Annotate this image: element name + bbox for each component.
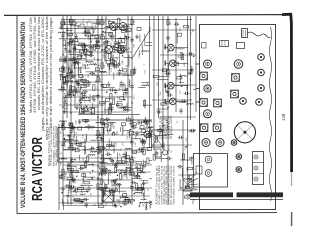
capacitor C196: [122, 202, 128, 205]
IF can Z5: [231, 90, 239, 98]
capacitor C48: [68, 70, 74, 73]
capacitor C42: [89, 72, 95, 75]
resistor R192: [124, 199, 130, 201]
capacitor C181: [128, 170, 131, 176]
coil L228: [108, 122, 115, 123]
capacitor C381: [69, 185, 72, 191]
wire: [104, 183, 108, 185]
capacitor C88: [156, 110, 162, 113]
junction: [133, 200, 135, 202]
wire: [144, 34, 146, 44]
resistor R134: [76, 143, 82, 145]
resistor R371: [70, 19, 72, 25]
capacitor C100: [188, 52, 194, 55]
capacitor C122: [70, 169, 73, 175]
ground: [66, 193, 70, 198]
wire: [115, 179, 117, 191]
svg-text:2.2M: 2.2M: [135, 135, 137, 140]
wire: [176, 47, 188, 49]
tube V6: [166, 59, 179, 66]
capacitor C131: [83, 160, 89, 163]
wire: [131, 151, 143, 153]
svg-text:10K: 10K: [70, 107, 72, 111]
wire: [106, 120, 108, 129]
wire: [66, 16, 68, 118]
resistor R247: [109, 103, 111, 109]
junction: [114, 63, 116, 65]
resistor R438: [131, 121, 133, 127]
ground: [109, 102, 113, 107]
part: [68, 69, 72, 72]
coil L157: [146, 127, 153, 128]
resistor R226: [144, 161, 146, 167]
svg-text:6.8K: 6.8K: [118, 199, 120, 204]
wire: [109, 63, 111, 70]
resistor R22: [81, 85, 87, 87]
wire: [138, 86, 146, 88]
svg-text:1M: 1M: [191, 31, 193, 34]
wire: [95, 38, 97, 43]
resistor R398: [97, 19, 99, 25]
ground: [63, 109, 67, 114]
resistor R91: [161, 103, 167, 105]
wire: [69, 143, 71, 150]
resistor R212: [107, 144, 113, 146]
part: [69, 19, 73, 22]
part: [122, 123, 126, 126]
ground: [64, 46, 68, 51]
wire: [93, 95, 100, 97]
resistor R405: [101, 63, 103, 69]
part: [104, 124, 108, 127]
wire: [114, 25, 116, 36]
capacitor C145: [78, 167, 84, 170]
wire: [60, 85, 62, 89]
junction: [80, 71, 82, 73]
resistor R9: [60, 74, 62, 80]
wire: [160, 116, 196, 118]
resistor R234: [157, 129, 163, 131]
coil L260: [129, 80, 130, 87]
resistor R435: [131, 70, 133, 76]
svg-text:.05: .05: [79, 159, 81, 163]
resistor R262: [110, 93, 112, 99]
capacitor C125: [87, 124, 90, 130]
wire: [59, 28, 105, 30]
capacitor C436: [130, 84, 133, 90]
wire: [103, 31, 113, 33]
junction: [81, 102, 83, 104]
wire: [113, 142, 115, 153]
wire: [85, 57, 87, 62]
control shaft: [189, 157, 194, 159]
wire: [103, 158, 105, 169]
ground: [101, 198, 105, 203]
wire: [68, 57, 70, 71]
coil L222: [149, 128, 150, 135]
tuner box: [58, 128, 104, 163]
wire: [195, 16, 197, 112]
capacitor C439: [130, 139, 133, 145]
wire: [71, 199, 82, 201]
capacitor C92: [174, 22, 180, 25]
capacitor C403: [100, 32, 103, 38]
capacitor C43: [88, 54, 94, 57]
coil L180: [103, 190, 104, 197]
wire: [93, 204, 96, 206]
wire: [62, 201, 64, 210]
capacitor C160: [140, 139, 146, 142]
ground: [74, 34, 78, 39]
resistor R8: [63, 78, 65, 84]
svg-text:6.8K: 6.8K: [123, 174, 125, 179]
power cord: [248, 32, 271, 38]
wire: [150, 204, 152, 206]
wire: [78, 99, 91, 101]
svg-text:3.3K: 3.3K: [104, 54, 106, 59]
wire: [125, 199, 135, 201]
wire: [88, 163, 94, 165]
svg-text:1M: 1M: [73, 174, 75, 177]
junction: [70, 159, 72, 161]
IF can Z7: [213, 124, 221, 132]
svg-text:3.3K: 3.3K: [83, 133, 85, 138]
wire: [118, 40, 120, 44]
wire: [148, 127, 152, 129]
ground: [147, 131, 151, 136]
wire: [105, 16, 107, 62]
chassis tube V20: [204, 60, 212, 68]
junction: [163, 125, 165, 127]
part: [79, 74, 83, 77]
wire: [142, 182, 148, 184]
coil L24: [64, 56, 65, 63]
wire: [104, 49, 106, 61]
svg-text:12K: 12K: [109, 192, 111, 196]
wire: [90, 109, 92, 115]
capacitor C129: [73, 188, 79, 191]
capacitor C229: [141, 148, 144, 154]
wire: [80, 142, 86, 144]
svg-text:6.8K: 6.8K: [184, 62, 186, 67]
part: [105, 188, 109, 191]
ground: [92, 97, 96, 102]
resistor R149: [84, 162, 86, 168]
junction: [113, 51, 115, 53]
coil L121: [74, 143, 81, 144]
wire: [175, 18, 177, 112]
wire: [123, 130, 129, 132]
svg-text:270K: 270K: [104, 170, 106, 176]
resistor R96: [181, 54, 183, 60]
wire: [153, 16, 155, 150]
resistor R380: [70, 172, 72, 178]
junction: [120, 172, 122, 174]
capacitor C70: [117, 62, 120, 68]
junction: [101, 104, 103, 106]
wire: [189, 131, 195, 133]
ground: [102, 191, 106, 196]
resistor R58: [114, 62, 116, 68]
power plug: [242, 29, 248, 38]
wire: [130, 161, 132, 171]
wire: [182, 120, 184, 205]
wire: [63, 111, 128, 113]
capacitor C184: [143, 120, 149, 123]
wire: [80, 194, 84, 196]
capacitor C46: [72, 47, 78, 50]
wire: [62, 199, 64, 204]
resistor R377: [70, 123, 72, 129]
capacitor C101: [184, 92, 190, 95]
wire: [84, 147, 86, 154]
capacitor C21: [67, 91, 70, 97]
capacitor C59: [114, 40, 117, 46]
capacitor C242: [177, 165, 183, 168]
resistor R237: [155, 137, 157, 143]
capacitor C139: [83, 120, 89, 123]
wire: [59, 89, 128, 91]
coil L114: [59, 158, 66, 159]
resistor R227: [136, 162, 142, 164]
resistor R106: [68, 168, 74, 170]
wire: [108, 138, 110, 149]
coil L202: [145, 117, 146, 124]
capacitor C409: [100, 136, 103, 142]
svg-text:270K: 270K: [139, 53, 141, 59]
resistor R257: [117, 104, 123, 106]
part: [120, 97, 124, 100]
coil L104: [186, 103, 193, 104]
svg-text:150: 150: [94, 56, 96, 60]
resistor R39: [88, 33, 90, 39]
svg-text:3.3K: 3.3K: [106, 147, 108, 152]
capacitor C76: [124, 29, 130, 32]
svg-text:.02: .02: [64, 142, 66, 146]
wire: [74, 19, 76, 108]
svg-text:33K: 33K: [117, 130, 119, 134]
wire: [76, 88, 78, 93]
capacitor C412: [100, 187, 103, 193]
ground: [114, 203, 118, 208]
capacitor C236: [161, 143, 164, 149]
junction: [117, 175, 119, 177]
wire: [187, 16, 189, 182]
wire: [63, 19, 192, 21]
wire: [119, 127, 121, 132]
wire: [119, 69, 123, 71]
ground: [60, 24, 64, 29]
part: [78, 127, 82, 130]
wire: [157, 78, 169, 80]
junction: [97, 166, 99, 168]
junction: [102, 31, 104, 32]
wire: [62, 16, 64, 205]
wire: [90, 35, 100, 37]
svg-text:2.2M: 2.2M: [91, 22, 93, 27]
part: [126, 167, 130, 170]
resistor R245: [182, 154, 184, 160]
part: [121, 29, 125, 32]
wire: [71, 191, 81, 193]
wire: [73, 47, 75, 58]
svg-text:3.3K: 3.3K: [185, 146, 187, 151]
wire: [114, 29, 116, 42]
tube V3: [101, 45, 116, 54]
capacitor C232: [114, 162, 117, 168]
capacitor C146: [71, 125, 74, 131]
junction: [73, 149, 75, 151]
trimmer stub: [196, 88, 200, 90]
wire: [118, 54, 120, 65]
resistor R158: [137, 168, 143, 170]
wire: [131, 16, 133, 205]
transformer T4: [80, 108, 95, 114]
capacitor C68: [113, 63, 116, 69]
resistor R54: [62, 82, 68, 84]
resistor R34: [94, 45, 96, 51]
junction: [70, 112, 72, 114]
resistor R163: [114, 167, 116, 173]
wire: [117, 100, 123, 102]
resistor R33: [63, 40, 65, 46]
wire: [125, 65, 129, 67]
junction: [73, 95, 75, 97]
wire: [141, 179, 148, 181]
wire: [84, 65, 86, 70]
chassis torn edge: [270, 27, 272, 201]
coil L45: [81, 97, 88, 98]
wire: [104, 172, 115, 174]
wire: [97, 16, 99, 205]
coil L148: [69, 127, 76, 128]
junction: [106, 168, 108, 170]
svg-text:3.3K: 3.3K: [134, 20, 136, 25]
resistor R73: [107, 64, 113, 66]
junction: [124, 99, 126, 101]
wire: [92, 103, 94, 108]
junction: [87, 109, 89, 111]
chassis tube V25: [216, 139, 224, 147]
resistor R162: [119, 161, 125, 163]
wire: [104, 187, 106, 195]
junction: [167, 51, 169, 53]
resistor R468: [167, 19, 169, 25]
capacitor C35: [69, 40, 75, 43]
svg-text:.1: .1: [110, 153, 112, 156]
svg-text:2.2M: 2.2M: [92, 126, 94, 131]
wire: [108, 63, 110, 75]
wire: [179, 82, 184, 84]
wire: [70, 90, 81, 92]
wire: [139, 34, 141, 42]
wire: [152, 29, 196, 31]
wire: [70, 25, 80, 27]
wire: [126, 167, 128, 179]
coil L174: [144, 121, 151, 122]
junction: [113, 160, 115, 162]
ground: [133, 173, 137, 178]
wire: [80, 97, 85, 99]
coil L263: [119, 108, 126, 109]
wire: [63, 32, 90, 34]
capacitor C105: [70, 185, 76, 188]
part: [95, 68, 99, 71]
wire: [143, 104, 152, 106]
wire: [66, 55, 68, 63]
resistor R94: [180, 53, 182, 59]
wire: [114, 190, 127, 192]
part: [185, 186, 189, 189]
wire: [73, 57, 75, 69]
junction: [186, 146, 188, 148]
junction: [139, 175, 141, 177]
part: [125, 198, 129, 201]
svg-text:33K: 33K: [61, 161, 63, 165]
wire: [168, 64, 170, 70]
wire: [73, 57, 86, 59]
capacitor C86: [167, 93, 173, 96]
wire: [112, 29, 117, 31]
junction: [135, 166, 137, 168]
wire: [58, 124, 60, 210]
ground: [78, 119, 82, 124]
svg-text:470: 470: [123, 142, 125, 146]
capacitor C251: [116, 102, 119, 108]
ground: [99, 149, 103, 154]
wire: [64, 23, 76, 25]
part: [130, 131, 134, 134]
resistor R51: [83, 81, 89, 83]
part: [177, 33, 181, 36]
resistor R28: [75, 88, 81, 90]
part: [137, 27, 141, 30]
capacitor C193: [143, 139, 146, 145]
svg-text:10K: 10K: [102, 95, 104, 99]
junction: [113, 131, 115, 133]
coil L116: [90, 151, 97, 152]
wire: [95, 41, 100, 43]
part: [67, 166, 71, 169]
capacitor C141: [87, 186, 90, 192]
junction: [62, 106, 64, 108]
wire: [141, 44, 143, 55]
chassis base line: [190, 199, 283, 201]
wire: [103, 87, 115, 89]
coil L172: [114, 184, 121, 185]
wire: [149, 200, 152, 202]
wire: [86, 71, 98, 73]
junction: [70, 59, 72, 61]
capacitor C25: [82, 90, 88, 93]
svg-text:2.2M: 2.2M: [66, 172, 68, 177]
capacitor C217: [137, 147, 143, 150]
resistor R80: [105, 42, 107, 48]
capacitor C115: [85, 202, 88, 208]
svg-text:33K: 33K: [82, 63, 84, 67]
resistor R363: [62, 19, 64, 25]
IF can Z4: [214, 99, 222, 107]
junction: [75, 81, 77, 83]
resistor R173: [100, 179, 102, 185]
chassis tube V21: [234, 60, 243, 69]
capacitor C231: [111, 179, 117, 182]
wire: [78, 49, 88, 51]
resistor R372: [62, 169, 64, 175]
coil L205: [96, 135, 103, 136]
coil L208: [142, 138, 143, 145]
resistor R401: [97, 76, 99, 82]
